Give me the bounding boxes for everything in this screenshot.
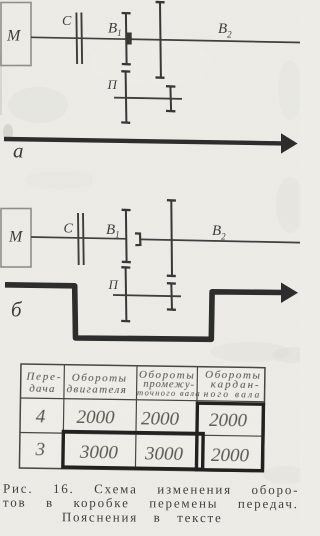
svg-text:ного вала: ного вала xyxy=(204,390,262,401)
svg-text:П: П xyxy=(107,77,119,92)
svg-text:2000: 2000 xyxy=(211,445,250,467)
svg-text:тов в коробке перемены передач: тов в коробке перемены передач. xyxy=(3,495,299,512)
svg-text:2000: 2000 xyxy=(76,407,115,429)
svg-text:а: а xyxy=(13,139,24,163)
svg-text:б: б xyxy=(11,298,23,322)
svg-text:точного вала: точного вала xyxy=(137,387,201,398)
svg-text:дача: дача xyxy=(29,383,56,395)
svg-text:2000: 2000 xyxy=(141,408,180,430)
svg-text:3: 3 xyxy=(34,439,45,460)
svg-text:3000: 3000 xyxy=(144,443,184,465)
svg-text:М: М xyxy=(6,28,22,45)
svg-text:П: П xyxy=(108,277,120,292)
svg-text:С: С xyxy=(62,14,72,29)
svg-text:4: 4 xyxy=(36,406,46,427)
svg-text:2000: 2000 xyxy=(209,410,248,432)
svg-text:М: М xyxy=(8,229,24,246)
svg-text:Пере-: Пере- xyxy=(25,371,62,384)
svg-text:3000: 3000 xyxy=(79,442,119,464)
svg-text:Пояснения в тексте: Пояснения в тексте xyxy=(62,509,223,525)
svg-text:двигателя: двигателя xyxy=(66,383,127,396)
svg-text:С: С xyxy=(64,222,74,237)
